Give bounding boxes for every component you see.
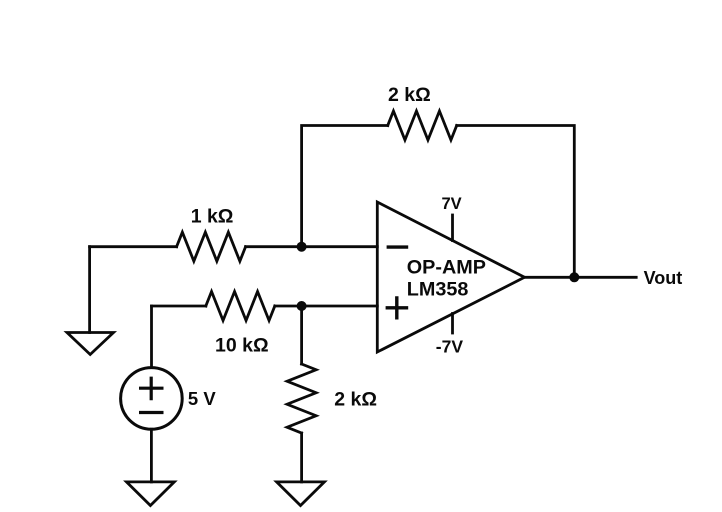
U1 non-inverting input symbol (plus) — [387, 298, 406, 318]
wire: junction down to R4 — [300, 306, 303, 364]
U1 inverting input symbol (minus) — [388, 245, 406, 248]
node: non-inverting junction — [297, 301, 307, 311]
svg-text:-7V: -7V — [436, 337, 464, 357]
pin: V- supply stub — [451, 314, 454, 334]
V1 minus sign — [141, 411, 162, 414]
wire: feedback left vertical up and top run to R1 — [302, 126, 388, 247]
svg-text:2 kΩ: 2 kΩ — [388, 84, 431, 106]
resistor R4 2k (vertical) — [287, 364, 316, 433]
wire: source branch up to 10k row — [150, 306, 153, 368]
wire: R4 to ground — [300, 433, 303, 482]
resistor R2 1k (input, horizontal) — [177, 232, 246, 261]
svg-text:2 kΩ: 2 kΩ — [334, 389, 377, 411]
resistor R3 10k (horizontal) — [206, 292, 275, 321]
wire: V1 to ground — [150, 429, 153, 482]
ground: left (input reference) — [67, 333, 114, 355]
svg-text:5 V: 5 V — [188, 388, 216, 409]
resistor R1 2k (feedback, horizontal) — [388, 111, 457, 140]
svg-text:10 kΩ: 10 kΩ — [215, 335, 269, 357]
pin: V+ supply stub — [451, 215, 454, 241]
svg-text:7V: 7V — [442, 195, 462, 213]
svg-text:1 kΩ: 1 kΩ — [191, 205, 234, 227]
wire: R2 to inverting input of U1 — [246, 245, 378, 248]
wire: R3 to non-inverting input of U1 — [275, 305, 378, 308]
wire: feedback top right run and down to output node — [457, 126, 575, 278]
node: inverting junction — [297, 242, 307, 252]
wire: left ground drop from input row — [88, 247, 91, 333]
wire: 10k row left horizontal from source branch — [152, 305, 206, 308]
svg-text:Vout: Vout — [644, 268, 683, 288]
op-amp U1 triangle — [377, 202, 524, 352]
V1 plus sign — [141, 378, 162, 398]
ground: under V1 — [127, 482, 175, 506]
svg-text:OP-AMP: OP-AMP — [407, 257, 486, 279]
wire: output from U1 apex — [525, 276, 637, 279]
voltage source V1 circle — [121, 368, 183, 430]
svg-text:LM358: LM358 — [407, 279, 469, 301]
wire: input row left horizontal to R2 — [90, 245, 177, 248]
node: output junction — [569, 272, 579, 282]
ground: under R4 — [277, 482, 325, 506]
